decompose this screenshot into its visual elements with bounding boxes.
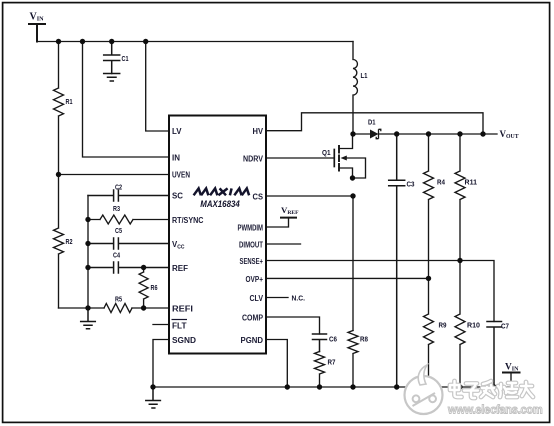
svg-text:C6: C6 bbox=[329, 335, 337, 344]
svg-text:R7: R7 bbox=[328, 358, 336, 367]
logo MAXIM bbox=[194, 188, 250, 195]
junction left bus / C5 bbox=[85, 241, 90, 246]
capacitor C5 bbox=[88, 238, 169, 249]
capacitor C7 bbox=[487, 322, 502, 388]
capacitor C2 bbox=[88, 190, 169, 201]
capacitor C6 bbox=[313, 334, 327, 352]
svg-text:C3: C3 bbox=[407, 180, 415, 189]
svg-text:R5: R5 bbox=[115, 295, 122, 304]
junction ground rail / R10 bbox=[457, 384, 462, 389]
power flag VIN bottom-right bbox=[503, 372, 520, 374]
svg-text:SGND: SGND bbox=[172, 336, 196, 345]
wire PGND bbox=[266, 340, 287, 388]
junction ground rail / R7 bbox=[317, 384, 322, 389]
junction left bus / C4 bbox=[85, 265, 90, 270]
svg-text:REFI: REFI bbox=[172, 305, 193, 314]
svg-text:CLV: CLV bbox=[250, 294, 264, 303]
wire top VIN rail bbox=[37, 41, 353, 43]
svg-text:R2: R2 bbox=[66, 237, 73, 246]
svg-text:COMP: COMP bbox=[242, 314, 263, 323]
svg-text:PWMDIM: PWMDIM bbox=[238, 224, 264, 233]
resistor R9 bbox=[424, 278, 434, 387]
svg-text:R10: R10 bbox=[467, 321, 480, 330]
svg-text:R9: R9 bbox=[439, 321, 447, 330]
svg-text:R8: R8 bbox=[360, 335, 368, 344]
svg-text:IN: IN bbox=[172, 154, 180, 163]
wire FLT stub bbox=[153, 324, 169, 326]
junction SENSE+ / R11 / R10 bbox=[457, 258, 462, 263]
svg-text:R4: R4 bbox=[437, 178, 446, 187]
resistor R3 bbox=[88, 215, 169, 224]
wire CLV N.C. stub bbox=[266, 297, 288, 299]
wire VOUT rail bbox=[379, 133, 498, 135]
resistor R2 bbox=[54, 175, 64, 309]
svg-text:R3: R3 bbox=[113, 204, 120, 213]
junction ground rail / C3 bbox=[394, 384, 399, 389]
resistor R6 bbox=[139, 268, 148, 309]
junction left bus / REFI / ground bbox=[85, 305, 90, 310]
svg-text:REF: REF bbox=[172, 264, 188, 273]
svg-text:C2: C2 bbox=[115, 183, 122, 192]
svg-text:CS: CS bbox=[253, 193, 264, 202]
wire DIMOUT stub bbox=[266, 243, 301, 245]
junction VOUT / R4 bbox=[426, 131, 431, 136]
junction VOUT / C3 bbox=[394, 131, 399, 136]
svg-text:Q1: Q1 bbox=[322, 148, 331, 157]
junction Q1 source / body bbox=[350, 175, 355, 180]
resistor R10 bbox=[455, 261, 465, 388]
svg-text:MAX16834: MAX16834 bbox=[200, 199, 240, 210]
capacitor C1 bbox=[104, 42, 120, 74]
svg-text:OVP+: OVP+ bbox=[246, 275, 264, 284]
wire CS bbox=[266, 195, 353, 197]
resistor R4 bbox=[424, 134, 434, 278]
wire L1 to D1 bbox=[353, 133, 370, 135]
junction REF / R6 top bbox=[141, 265, 146, 270]
svg-text:L1: L1 bbox=[361, 71, 368, 80]
inductor L1 bbox=[353, 42, 357, 135]
junction top rail / IN column bbox=[80, 39, 85, 44]
svg-text:PGND: PGND bbox=[241, 336, 264, 345]
junction ground rail / SGND bbox=[150, 384, 155, 389]
wire IN column bbox=[83, 42, 170, 158]
junction ground rail / C7 bbox=[491, 384, 496, 389]
svg-text:C4: C4 bbox=[113, 251, 121, 260]
resistor R5 bbox=[104, 304, 132, 313]
wire UVEN bbox=[59, 174, 170, 176]
svg-text:D1: D1 bbox=[368, 118, 376, 127]
svg-text:NDRV: NDRV bbox=[243, 155, 264, 164]
junction OVP+ / R4 / R9 bbox=[426, 276, 431, 281]
junction top rail / R1 bbox=[56, 39, 61, 44]
junction ground rail / PGND bbox=[285, 384, 290, 389]
junction L1 / D1 anode / Q1 drain bbox=[350, 131, 355, 136]
junction ground rail / R9 bbox=[426, 384, 431, 389]
wire SGND bbox=[153, 340, 169, 388]
wire HV loop bbox=[266, 113, 483, 134]
junction top rail / LV column bbox=[143, 39, 148, 44]
wire LV column bbox=[146, 42, 169, 132]
svg-text:C1: C1 bbox=[122, 54, 129, 63]
capacitor C4 bbox=[88, 262, 169, 273]
IC U1 MAX16834 body bbox=[169, 116, 266, 354]
svg-text:www.elecfans.com: www.elecfans.com bbox=[447, 403, 543, 417]
ground below C1 bbox=[104, 74, 120, 82]
svg-text:C7: C7 bbox=[501, 322, 509, 331]
svg-text:LV: LV bbox=[172, 127, 182, 136]
watermark chinese text bbox=[450, 381, 533, 398]
ground below SGND bbox=[146, 387, 161, 408]
svg-text:RT/SYNC: RT/SYNC bbox=[172, 216, 204, 225]
junction CS / Q1 source column bbox=[350, 193, 355, 198]
power flag VREF at PWMDIM bbox=[281, 217, 296, 219]
resistor R1 bbox=[54, 42, 64, 175]
transistor Q1 bbox=[333, 150, 335, 167]
wire Q1 source / R8 column bbox=[352, 196, 354, 331]
wire REFI row bbox=[59, 307, 170, 309]
ground below left bus bbox=[81, 308, 96, 329]
svg-text:R6: R6 bbox=[151, 283, 158, 292]
wire SENSE+ row bbox=[266, 261, 494, 322]
junction VOUT / R11 bbox=[457, 131, 462, 136]
svg-text:C5: C5 bbox=[115, 226, 122, 235]
diode D1 bbox=[370, 129, 381, 138]
junction top rail / C1 bbox=[109, 39, 114, 44]
svg-text:UVEN: UVEN bbox=[172, 171, 190, 180]
svg-text:N.C.: N.C. bbox=[292, 294, 306, 303]
wire COMP column bbox=[266, 317, 320, 334]
svg-text:R11: R11 bbox=[465, 178, 478, 187]
resistor R11 bbox=[455, 134, 465, 261]
junction REFI / R6 bottom bbox=[141, 305, 146, 310]
svg-text:SC: SC bbox=[172, 192, 183, 201]
resistor R7 bbox=[315, 352, 325, 388]
watermark circle icon bbox=[405, 365, 443, 414]
svg-text:DIMOUT: DIMOUT bbox=[239, 241, 263, 250]
wire ground rail bbox=[153, 386, 511, 388]
svg-text:HV: HV bbox=[253, 127, 264, 136]
junction left bus / R3 bbox=[85, 217, 90, 222]
capacitor C3 bbox=[389, 134, 405, 387]
junction VOUT / HV loop bbox=[480, 131, 485, 136]
resistor R8 bbox=[348, 331, 358, 388]
wire left bus bbox=[87, 196, 89, 309]
junction UVEN / R1 / R2 bbox=[56, 172, 61, 177]
wire NDRV to gate bbox=[266, 157, 334, 159]
svg-text:R1: R1 bbox=[66, 97, 73, 106]
wire OVP+ row bbox=[266, 277, 429, 279]
svg-text:FLT: FLT bbox=[172, 322, 187, 331]
svg-text:SENSE+: SENSE+ bbox=[240, 257, 264, 266]
junction ground rail / R8 bbox=[350, 384, 355, 389]
power flag VIN top-left bbox=[29, 24, 45, 42]
